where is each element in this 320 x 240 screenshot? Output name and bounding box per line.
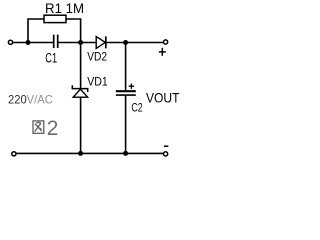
- node D: bottom junction under VD1: [78, 151, 83, 156]
- capacitor C2 top plate (thick, +): [116, 90, 136, 92]
- diode VD2 (triangle, pointing right): [96, 37, 105, 49]
- capacitor C1 plate left: [53, 35, 55, 48]
- node A: junction of input, R1, C1: [26, 40, 31, 45]
- node C: junction of VD2, C2, + output: [123, 40, 128, 45]
- label - (output polarity): [164, 145, 168, 147]
- zener diode VD1 triangle (pointing up): [73, 89, 87, 97]
- label + (output polarity): [159, 51, 166, 53]
- wire: bottom rail: [16, 152, 163, 154]
- wire: VD1 anode down to bottom rail: [80, 98, 82, 154]
- svg-text:220V/AC: 220V/AC: [8, 93, 53, 107]
- capacitor C2 bottom plate: [116, 94, 136, 96]
- wire: node A up to resistor branch: [28, 19, 44, 43]
- node B: junction of C1, R1, VD2, VD1: [78, 40, 83, 45]
- capacitor C1 plate right: [57, 35, 59, 48]
- svg-text:VD1: VD1: [87, 77, 108, 89]
- wire: node C down to C2 top plate: [125, 43, 127, 91]
- wire: node B down to VD1 cathode: [80, 43, 82, 89]
- svg-text:C2: C2: [131, 100, 142, 114]
- terminal: top-right + output (open circle): [164, 40, 168, 44]
- diode VD2 cathode bar: [105, 36, 107, 48]
- terminal: bottom-left input (open circle): [12, 152, 16, 156]
- wire: resistor right side down to node B: [66, 19, 81, 43]
- node E: bottom junction under C2: [123, 151, 128, 156]
- svg-text:R1 1M: R1 1M: [45, 0, 84, 16]
- resistor R1 (box symbol): [44, 15, 66, 22]
- terminal: bottom-right - output (open circle): [164, 152, 168, 156]
- wire: top rail, terminal to C1 left plate (through node A): [13, 42, 54, 44]
- svg-text:VOUT: VOUT: [146, 89, 180, 105]
- svg-text:VD2: VD2: [87, 52, 107, 64]
- wire: VD2 cathode to top-right terminal (through node C): [106, 42, 163, 44]
- wire: C2 bottom plate down to bottom rail: [125, 96, 127, 154]
- label figure 图2 (hand-drawn CJK glyph): [33, 121, 44, 133]
- svg-text:C1: C1: [45, 51, 57, 66]
- label + (C2 polarity): [129, 85, 134, 87]
- wire: C1 right plate to VD2 anode (through node B): [58, 42, 96, 44]
- zener diode VD1 cathode bar with bent ends: [72, 85, 87, 92]
- terminal: top-left input (open circle): [8, 40, 12, 44]
- svg-text:2: 2: [47, 117, 59, 140]
